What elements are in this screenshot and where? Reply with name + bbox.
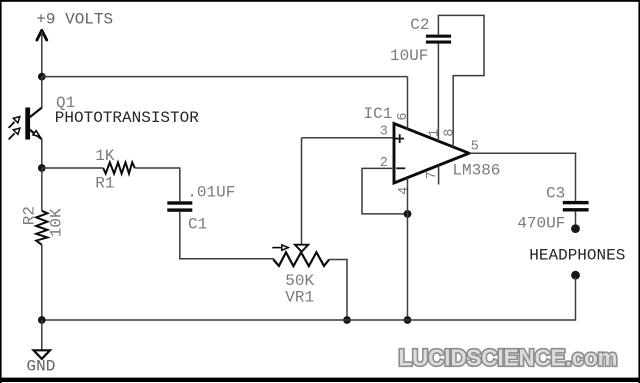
- pin 5 number: [471, 140, 479, 155]
- label C1: [188, 216, 207, 234]
- pin 6 number (rotated): [396, 112, 411, 120]
- junction at +9V rail: [38, 73, 46, 81]
- label GND: [27, 357, 56, 375]
- node headphone terminal top: [571, 224, 580, 233]
- junction pin2/pin4: [404, 210, 412, 218]
- wire collector drop: [41, 77, 43, 108]
- wire ground stub: [41, 320, 43, 350]
- ground symbol: [34, 350, 50, 359]
- wire pin 5 output: [469, 153, 576, 201]
- label R1: [95, 175, 114, 193]
- op-amp U1 LM386 triangle: [394, 124, 469, 184]
- label C3: [546, 185, 565, 203]
- junction ground tap: [38, 316, 46, 324]
- resistor R1: [103, 162, 135, 173]
- label 470UF: [517, 215, 565, 233]
- pin 4 number (rotated): [397, 187, 412, 195]
- svg-text:C2: C2: [410, 16, 429, 34]
- label .01UF: [187, 183, 235, 201]
- wire to R2: [41, 168, 43, 211]
- svg-text:3: 3: [380, 125, 388, 140]
- svg-text:1K: 1K: [95, 147, 115, 165]
- label LM386: [452, 161, 500, 179]
- +9V supply arrow: [37, 30, 47, 76]
- label HEADPHONES: [529, 246, 625, 264]
- junction VR1 at rail: [343, 316, 351, 324]
- capacitor C1: [167, 201, 192, 211]
- svg-text:R1: R1: [95, 175, 114, 193]
- resistor R2: [36, 211, 47, 245]
- svg-text:6: 6: [396, 112, 411, 120]
- wire headphone to ground rail: [42, 277, 576, 320]
- svg-text:VR1: VR1: [285, 288, 314, 306]
- junction pin4 at rail: [404, 316, 412, 324]
- svg-text:8: 8: [442, 129, 457, 137]
- wire pin 4 to ground rail: [407, 178, 409, 320]
- pin 8 number (rotated): [442, 129, 457, 137]
- capacitor C3: [563, 201, 589, 212]
- potentiometer VR1: [272, 245, 329, 266]
- svg-text:1: 1: [428, 129, 443, 137]
- wire pin 3: [302, 137, 395, 139]
- pin 7 number (rotated): [425, 171, 440, 179]
- node +9V net label: [36, 11, 113, 29]
- label PHOTOTRANSISTOR: [55, 109, 199, 127]
- watermark LUCIDSCIENCE.com: [399, 345, 618, 371]
- wire wiper to pin 3: [301, 138, 303, 245]
- svg-text:.01UF: .01UF: [187, 183, 235, 201]
- svg-text:10UF: 10UF: [390, 47, 428, 65]
- pin 3 number: [380, 125, 388, 140]
- label C2: [410, 16, 429, 34]
- wire pin 8 to C2 top: [438, 15, 484, 147]
- transistor Q1 phototransistor symbol: [9, 108, 42, 140]
- junction at R1 tap: [38, 164, 46, 172]
- svg-text:C3: C3: [546, 185, 565, 203]
- svg-text:IC1: IC1: [364, 105, 393, 123]
- svg-text:50K: 50K: [285, 272, 314, 290]
- svg-text:HEADPHONES: HEADPHONES: [529, 246, 625, 264]
- svg-text:GND: GND: [27, 357, 56, 375]
- label R2 (rotated): [21, 206, 39, 225]
- pin 1 number (rotated): [428, 129, 443, 137]
- capacitor C2: [426, 35, 451, 44]
- wire VR1 right to ground rail: [329, 260, 347, 321]
- svg-text:4: 4: [397, 187, 412, 195]
- wire R1 to C1: [135, 168, 180, 201]
- wire R2 to ground rail: [41, 245, 43, 320]
- svg-text:PHOTOTRANSISTOR: PHOTOTRANSISTOR: [55, 109, 199, 127]
- wire pin 2 feedback: [362, 168, 408, 214]
- wire pin 7 stub: [438, 165, 440, 184]
- label 10K (rotated): [48, 208, 66, 237]
- node headphone terminal bottom: [571, 271, 580, 280]
- svg-text:LUCIDSCIENCE.com: LUCIDSCIENCE.com: [399, 345, 618, 371]
- label Q1: [56, 94, 75, 112]
- wire top rail: [42, 76, 408, 78]
- svg-text:R2: R2: [21, 206, 39, 225]
- label 10UF: [390, 47, 428, 65]
- wire C1 to VR1 left: [180, 212, 274, 259]
- svg-text:+9 VOLTS: +9 VOLTS: [36, 11, 113, 29]
- svg-text:C1: C1: [188, 216, 207, 234]
- label IC1: [364, 105, 393, 123]
- svg-text:10K: 10K: [48, 208, 66, 237]
- svg-text:LM386: LM386: [452, 161, 500, 179]
- label 50K: [285, 272, 314, 290]
- wire R1 branch: [42, 167, 103, 169]
- wire C3 to terminal: [575, 212, 577, 227]
- wire emitter to R1 tap: [41, 139, 43, 169]
- pin 2 number: [380, 156, 388, 171]
- svg-text:470UF: 470UF: [517, 215, 565, 233]
- label VR1: [285, 288, 314, 306]
- wire pin 1 to C2: [437, 43, 439, 141]
- label 1K: [95, 147, 115, 165]
- wire pin 6 from rail: [407, 77, 409, 130]
